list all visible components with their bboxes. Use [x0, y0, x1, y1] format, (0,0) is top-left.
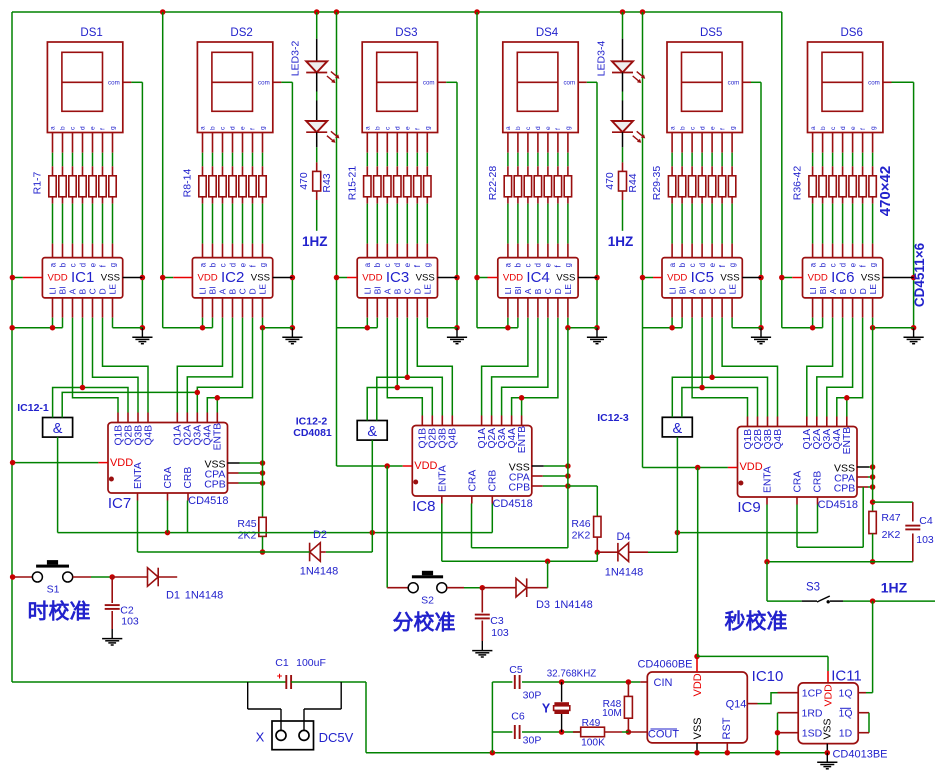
wire VDD top rail	[12, 11, 782, 13]
gate IC12-3	[662, 417, 692, 437]
svg-text:S3: S3	[806, 582, 820, 594]
wire IC4 LE to ground	[567, 298, 569, 318]
svg-text:IC5: IC5	[691, 269, 714, 286]
wire VDD bottom	[12, 681, 286, 683]
wire IC8 CRA to CPB	[471, 504, 473, 548]
svg-text:e: e	[544, 263, 553, 267]
svg-text:D4: D4	[616, 531, 630, 543]
LED LED3-2	[316, 12, 318, 39]
wire gate IC12-3 inputs	[672, 377, 712, 417]
wire IC3 LE to ground	[426, 298, 428, 318]
svg-text:R44: R44	[627, 173, 639, 192]
svg-text:LE: LE	[868, 284, 878, 295]
wire bundle IC5 to IC9 QB	[692, 318, 747, 417]
svg-text:103: 103	[916, 534, 934, 546]
svg-text:CRA: CRA	[468, 470, 479, 492]
ground C3	[481, 641, 483, 650]
svg-text:f: f	[415, 128, 422, 130]
svg-text:d: d	[698, 263, 707, 267]
svg-text:R45: R45	[237, 518, 256, 530]
svg-text:a: a	[808, 262, 817, 267]
svg-text:R46: R46	[571, 518, 590, 530]
svg-text:A: A	[523, 288, 533, 294]
svg-text:IC12-2: IC12-2	[296, 416, 328, 428]
svg-text:a: a	[365, 126, 372, 130]
svg-text:CD4013BE: CD4013BE	[832, 749, 887, 761]
display DS3	[362, 42, 437, 133]
wire VDD stub IC3	[337, 277, 348, 279]
svg-text:e: e	[850, 126, 857, 130]
wire gate IC12-2 output to D2	[371, 440, 373, 532]
resistor network R1-7	[49, 176, 56, 197]
svg-text:2K2: 2K2	[882, 529, 901, 541]
svg-text:LED3-2: LED3-2	[290, 41, 302, 77]
svg-text:BI: BI	[818, 286, 828, 294]
svg-text:VSS: VSS	[861, 273, 880, 284]
svg-text:b: b	[820, 126, 827, 130]
svg-text:1Q: 1Q	[838, 688, 852, 700]
switch S3	[802, 600, 817, 602]
svg-text:b: b	[818, 262, 827, 267]
svg-text:b: b	[514, 262, 523, 267]
diode D1 1N4148	[112, 576, 147, 578]
svg-text:IC7: IC7	[108, 495, 131, 512]
svg-text:com: com	[868, 80, 880, 87]
display DS2	[197, 42, 272, 133]
svg-text:g: g	[110, 126, 117, 130]
wire S1 to VDD rail	[13, 576, 33, 578]
svg-text:a: a	[505, 126, 512, 130]
svg-text:com: com	[258, 80, 270, 87]
svg-text:R8-14: R8-14	[182, 169, 194, 198]
svg-text:D: D	[553, 288, 563, 294]
wire VDD left rail	[11, 12, 13, 682]
wire VSS stub IC2	[273, 277, 293, 279]
gate IC12-2	[357, 421, 387, 441]
wire R46 to D4	[596, 537, 598, 552]
svg-text:CPB: CPB	[509, 481, 531, 493]
wire Q14 to 1CP	[747, 703, 757, 705]
svg-text:IC8: IC8	[412, 498, 435, 515]
wire R47 vertical	[872, 326, 874, 511]
ground IC11	[826, 753, 828, 762]
wire IC1 LT/BI tie to VDD	[52, 298, 54, 318]
svg-text:R22-28: R22-28	[487, 166, 499, 201]
svg-text:D: D	[413, 288, 423, 294]
svg-text:d: d	[395, 126, 402, 130]
wire IC10 VDD	[696, 656, 698, 672]
capacitor C3	[481, 588, 483, 613]
wire VDD feed IC3/IC8	[336, 12, 338, 466]
svg-text:e: e	[88, 263, 97, 267]
svg-text:g: g	[868, 263, 877, 267]
svg-text:Q4B: Q4B	[448, 428, 459, 449]
wire DS5 com to ground	[742, 81, 751, 83]
ground C2	[111, 629, 113, 638]
resistor network R36-42	[809, 176, 816, 197]
wire VDD stub IC4	[477, 277, 488, 279]
svg-text:c: c	[218, 263, 227, 267]
svg-text:D: D	[98, 288, 108, 294]
svg-text:CD4518: CD4518	[492, 498, 532, 510]
svg-text:b: b	[679, 126, 686, 130]
svg-text:d: d	[699, 126, 706, 130]
ground DS3	[456, 328, 458, 337]
wire gate IC12-1 inputs	[53, 388, 83, 418]
svg-text:B: B	[697, 288, 707, 294]
svg-text:VDD: VDD	[414, 460, 437, 472]
svg-text:b: b	[375, 126, 382, 130]
capacitor C4	[873, 501, 913, 503]
op-amp 7-seg driver IC4	[498, 258, 578, 298]
svg-text:d: d	[230, 126, 237, 130]
wire reset line IC7/IC8	[58, 532, 493, 534]
wire IC3 LT/BI tie to VDD	[366, 298, 368, 318]
svg-text:IC10: IC10	[752, 668, 784, 685]
wire DS2 segment pins	[202, 133, 204, 153]
wire R43 to 1HZ	[316, 200, 318, 231]
display DS6	[808, 42, 883, 133]
svg-text:VDD: VDD	[362, 273, 382, 284]
svg-text:100uF: 100uF	[296, 657, 326, 669]
svg-text:f: f	[860, 128, 867, 130]
svg-text:CD4518: CD4518	[188, 495, 228, 507]
svg-text:b: b	[210, 126, 217, 130]
op-amp 7-seg driver IC1	[42, 258, 122, 298]
svg-text:CD4511×6: CD4511×6	[912, 242, 927, 307]
resistor network R22-28	[504, 176, 511, 197]
connector X DC5V	[247, 682, 249, 709]
svg-text:VDD: VDD	[667, 273, 687, 284]
svg-text:+: +	[277, 671, 283, 682]
svg-text:2K2: 2K2	[572, 530, 591, 542]
wire ENTB IC9	[846, 398, 848, 417]
svg-text:CRB: CRB	[488, 470, 499, 492]
svg-text:b: b	[60, 126, 67, 130]
wire IC6 LT/BI tie to VDD	[812, 298, 814, 318]
svg-text:ENTB: ENTB	[213, 423, 224, 451]
svg-text:A: A	[68, 288, 78, 294]
svg-text:d: d	[80, 126, 87, 130]
svg-text:e: e	[848, 263, 857, 267]
svg-text:CD4060BE: CD4060BE	[637, 659, 692, 671]
capacitor C6	[492, 731, 512, 733]
ground DS2	[291, 328, 293, 337]
svg-text:1HZ: 1HZ	[881, 580, 908, 596]
svg-text:c: c	[68, 263, 77, 267]
wire DS6 com to ground	[883, 81, 892, 83]
svg-text:A: A	[687, 288, 697, 294]
wire DS3 segment pins	[366, 133, 368, 153]
diode D3 1N4148	[482, 587, 516, 589]
svg-text:com: com	[563, 80, 575, 87]
svg-text:10M: 10M	[602, 708, 622, 719]
svg-text:CD4081: CD4081	[293, 427, 332, 439]
svg-text:ENTA: ENTA	[133, 462, 144, 489]
svg-text:C: C	[238, 288, 248, 294]
svg-text:IC12-1: IC12-1	[17, 402, 49, 414]
svg-text:VDD: VDD	[692, 673, 704, 696]
svg-text:R43: R43	[321, 173, 333, 192]
svg-text:g: g	[260, 126, 267, 130]
svg-text:g: g	[108, 263, 117, 267]
wire IC3 BCD input stubs	[386, 298, 388, 318]
wire bundle IC4 to IC8 QA	[482, 318, 528, 416]
svg-text:b: b	[515, 126, 522, 130]
op-amp 7-seg driver IC2	[192, 258, 272, 298]
svg-text:LED3-4: LED3-4	[596, 41, 608, 77]
resistor R48	[627, 682, 629, 696]
svg-text:DC5V: DC5V	[319, 730, 354, 745]
wire IC4 LT/BI tie to VDD	[507, 298, 509, 318]
svg-text:BI: BI	[513, 286, 523, 294]
wire VDD feed IC6	[781, 12, 783, 328]
svg-text:BI: BI	[373, 286, 383, 294]
wire R36-42 to IC6	[812, 197, 814, 204]
svg-text:30P: 30P	[523, 735, 542, 747]
wire DS6 segment pins	[812, 133, 814, 153]
svg-text:C: C	[403, 288, 413, 294]
svg-text:C6: C6	[511, 711, 525, 723]
svg-text:a: a	[200, 126, 207, 130]
svg-text:VSS: VSS	[720, 273, 739, 284]
svg-text:VSS: VSS	[692, 717, 704, 739]
svg-text:BI: BI	[677, 286, 687, 294]
ground DS1	[141, 328, 143, 337]
svg-text:DS4: DS4	[536, 27, 559, 39]
svg-text:LI: LI	[503, 287, 513, 294]
diode D2 1N4148	[310, 543, 321, 562]
svg-text:IC9: IC9	[737, 499, 760, 516]
svg-text:1N4148: 1N4148	[605, 567, 644, 579]
svg-text:1HZ: 1HZ	[302, 234, 328, 249]
LED LED3-4	[622, 12, 624, 39]
svg-text:g: g	[870, 126, 877, 130]
svg-text:103: 103	[491, 627, 509, 639]
wire VSS stub IC4	[578, 277, 597, 279]
wire IC7 VSS/CPA/CPB stubs	[228, 462, 240, 464]
svg-text:IC12-3: IC12-3	[597, 412, 629, 424]
capacitor C2	[111, 577, 113, 603]
wire DS3 com to ground	[438, 81, 447, 83]
svg-text:f: f	[719, 128, 726, 130]
wire 1Qbar to 1D	[858, 712, 869, 714]
svg-text:Q14: Q14	[726, 699, 747, 711]
counter IC9 CD4518	[738, 427, 858, 498]
svg-text:R36-42: R36-42	[792, 166, 804, 201]
svg-text:c: c	[383, 263, 392, 267]
svg-text:a: a	[50, 126, 57, 130]
op-amp IC10 CD4060BE	[647, 672, 747, 743]
counter IC7 CD4518	[108, 423, 228, 494]
wire IC9 ENTA pulse line	[766, 505, 768, 562]
svg-text:BI: BI	[208, 286, 218, 294]
svg-text:D: D	[717, 288, 727, 294]
svg-text:f: f	[250, 128, 257, 130]
svg-text:com: com	[108, 80, 120, 87]
svg-text:g: g	[258, 263, 267, 267]
wire IC9 CRB to reset line	[817, 505, 819, 533]
svg-text:VDD: VDD	[197, 273, 217, 284]
svg-text:S1: S1	[47, 584, 60, 596]
svg-text:com: com	[728, 80, 740, 87]
svg-text:DS1: DS1	[80, 27, 102, 39]
svg-text:B: B	[533, 288, 543, 294]
svg-text:c: c	[524, 263, 533, 267]
svg-text:VDD: VDD	[823, 684, 835, 707]
svg-text:S2: S2	[421, 594, 434, 606]
svg-text:BI: BI	[58, 286, 68, 294]
wire bundle IC1 to IC7 QB	[73, 318, 119, 413]
svg-text:C1: C1	[275, 657, 289, 669]
wire IC7 bottom stubs	[137, 493, 139, 501]
crystal Y 32.768KHZ	[561, 682, 563, 702]
svg-text:RST: RST	[721, 717, 733, 739]
resistor R44	[622, 147, 624, 162]
wire DS2 com to ground	[273, 81, 282, 83]
svg-text:g: g	[564, 263, 573, 267]
resistor R45	[259, 517, 266, 536]
svg-text:103: 103	[121, 616, 139, 628]
svg-text:1CP: 1CP	[802, 688, 822, 700]
wire reset line IC9	[677, 532, 817, 534]
svg-text:a: a	[669, 126, 676, 130]
svg-text:LI: LI	[198, 287, 208, 294]
capacitor C5	[492, 681, 512, 683]
wire DS1 segment pins	[52, 133, 54, 153]
svg-text:a: a	[198, 262, 207, 267]
wire IC5 LT/BI tie to VDD	[671, 298, 673, 318]
wire IC7 ENTA pulse line	[137, 501, 139, 553]
wire VDD line IC9	[643, 467, 728, 469]
wire S3 to 1HZ	[843, 600, 935, 602]
svg-text:A: A	[828, 288, 838, 294]
svg-text:B: B	[78, 288, 88, 294]
resistor network R29-35	[668, 176, 675, 197]
wire 1Q stub	[858, 692, 866, 694]
wire IC8 ENTA pulse line	[441, 504, 443, 562]
display DS1	[47, 42, 122, 133]
svg-text:VDD: VDD	[110, 457, 133, 469]
svg-text:LI: LI	[363, 287, 373, 294]
wire VDD stub IC6	[782, 277, 793, 279]
svg-text:CD4518: CD4518	[818, 499, 858, 511]
svg-text:IC1: IC1	[71, 269, 94, 286]
svg-text:IC4: IC4	[526, 269, 549, 286]
wire bundle IC2 to IC7 QA	[177, 318, 222, 413]
svg-text:d: d	[535, 126, 542, 130]
wire R44 to 1HZ	[622, 200, 624, 231]
svg-text:A: A	[383, 288, 393, 294]
wire VSS stub IC6	[883, 277, 914, 279]
wire IC2 LE to ground	[262, 298, 264, 318]
svg-text:CPB: CPB	[834, 482, 856, 494]
svg-text:VDD: VDD	[808, 273, 828, 284]
svg-text:IC11: IC11	[831, 668, 862, 685]
svg-text:f: f	[555, 128, 562, 130]
wire IC8 VSS/CPA/CPB stubs	[532, 465, 544, 467]
wire COUT line	[562, 731, 581, 733]
svg-text:IC3: IC3	[386, 269, 409, 286]
wire S3 from IC9 ENTA	[766, 562, 768, 601]
wire R8-14 to IC2	[202, 197, 204, 204]
svg-text:VDD: VDD	[739, 461, 762, 473]
wire IC9 CRA to CPB	[796, 505, 798, 548]
svg-text:b: b	[208, 262, 217, 267]
svg-text:d: d	[838, 263, 847, 267]
wire IC7 CRA	[167, 501, 169, 533]
svg-text:LE: LE	[727, 284, 737, 295]
svg-text:C3: C3	[490, 615, 504, 627]
wire CIN line	[562, 681, 641, 683]
wire IC11 VSS ground	[826, 744, 828, 753]
svg-text:d: d	[228, 263, 237, 267]
wire 1Q to 1HZ	[872, 601, 874, 693]
svg-text:LE: LE	[563, 284, 573, 295]
svg-text:CRB: CRB	[813, 471, 824, 493]
svg-text:CIN: CIN	[654, 677, 673, 689]
svg-text:B: B	[838, 288, 848, 294]
wire IC10 VSS/RST to ground	[696, 743, 698, 753]
svg-text:VSS: VSS	[101, 273, 120, 284]
wire S1 to C2/D1	[73, 576, 91, 578]
svg-text:CRB: CRB	[183, 467, 194, 489]
wire DS4 com to ground	[578, 81, 587, 83]
resistor R47	[869, 511, 876, 533]
wire R1-7 to IC1	[52, 197, 54, 204]
svg-text:d: d	[393, 263, 402, 267]
svg-text:DS2: DS2	[230, 27, 252, 39]
svg-text:CRA: CRA	[163, 467, 174, 489]
gate IC12-1	[43, 418, 73, 438]
wire DS5 segment pins	[671, 133, 673, 153]
ground DS4	[596, 328, 598, 337]
svg-text:e: e	[403, 263, 412, 267]
wire ground rail bottom	[492, 752, 827, 754]
svg-text:分校准: 分校准	[393, 611, 456, 635]
svg-text:IC6: IC6	[831, 269, 854, 286]
switch S2	[408, 583, 418, 593]
wire IC4 BCD input stubs	[527, 298, 529, 318]
svg-text:a: a	[504, 262, 513, 267]
wire IC2 LT/BI tie to VDD	[202, 298, 204, 318]
wire R15-21 to IC3	[366, 197, 368, 204]
ground DS5	[760, 328, 762, 337]
svg-text:2K2: 2K2	[238, 530, 257, 542]
wire bundle IC6 to IC9 QA	[807, 318, 833, 417]
wire DS4 segment pins	[507, 133, 509, 153]
diode D4 1N4148	[597, 551, 618, 553]
wire IC8 bottom stubs	[441, 496, 443, 504]
wire IC2 BCD input stubs	[222, 298, 224, 318]
svg-text:32.768KHZ: 32.768KHZ	[547, 668, 597, 679]
wire IC1 BCD input stubs	[72, 298, 74, 318]
svg-text:a: a	[363, 262, 372, 267]
svg-text:C4: C4	[919, 515, 933, 527]
wire VSS stub IC1	[123, 277, 143, 279]
svg-text:DS3: DS3	[395, 27, 417, 39]
svg-text:1Q: 1Q	[838, 708, 852, 720]
wire bundle IC3 to IC8 QB	[387, 318, 422, 416]
wire C5/C6 left vertical	[491, 682, 493, 753]
wire ENTB IC7	[216, 398, 218, 413]
svg-text:X: X	[256, 730, 265, 745]
svg-text:c: c	[828, 263, 837, 267]
wire gate IC12-1 output	[57, 437, 59, 532]
svg-text:D1: D1	[166, 590, 180, 602]
display DS4	[503, 42, 578, 133]
svg-text:Q4B: Q4B	[143, 425, 154, 446]
